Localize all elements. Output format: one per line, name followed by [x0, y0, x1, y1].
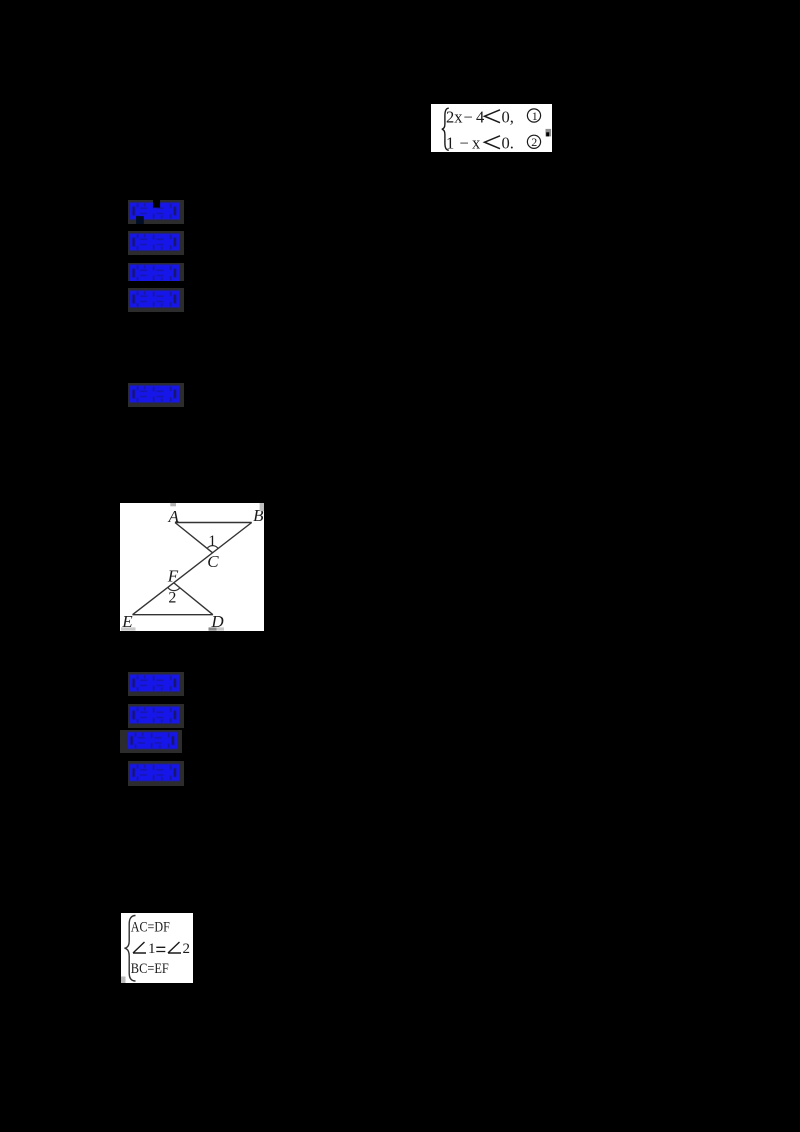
svg-text:A: A [167, 507, 179, 526]
svg-text:0.: 0. [502, 133, 514, 152]
blue label: dianping [128, 383, 184, 407]
svg-text:−: − [460, 133, 469, 152]
gray artifact bottom left under E [121, 628, 135, 631]
gray artifact top right [259, 503, 264, 511]
svg-text:2: 2 [182, 941, 190, 957]
blue label: zhuanti2 [128, 704, 184, 728]
svg-text:C: C [207, 552, 219, 571]
brace left [442, 108, 449, 150]
line 2: angle 1 = angle 2 [133, 942, 146, 953]
svg-text:1: 1 [208, 533, 216, 550]
blue label: fenxi [128, 263, 184, 281]
svg-text:x: x [472, 133, 481, 152]
gray artifact bottom left corner [121, 976, 126, 983]
gray artifact top above A [170, 503, 176, 506]
svg-text:−: − [464, 107, 473, 126]
svg-text:F: F [167, 567, 179, 586]
box: geometry figure [120, 503, 265, 631]
blue label: kaodian2 [128, 672, 184, 696]
circled 1 [527, 108, 540, 121]
box: congruence system (bottom) [121, 913, 193, 984]
blue label: kaodian [128, 200, 184, 224]
arc at F (angle 2) [168, 588, 180, 591]
line AC [175, 523, 213, 553]
line FD [174, 583, 213, 615]
svg-text:1: 1 [148, 941, 156, 957]
svg-text:BC=EF: BC=EF [130, 961, 168, 977]
brace left [124, 915, 135, 981]
blue label: zhuanti [128, 231, 184, 255]
blue label: jieda2 [128, 761, 184, 786]
svg-text:AC=DF: AC=DF [130, 919, 169, 935]
line ED [132, 614, 212, 616]
svg-text:0,: 0, [502, 107, 514, 126]
svg-text:2: 2 [168, 590, 176, 607]
svg-text:1: 1 [446, 133, 454, 152]
line AB [175, 522, 252, 524]
svg-text:2: 2 [531, 135, 537, 149]
anchor marker gray square [546, 128, 552, 136]
arc at C (angle 1) [207, 546, 218, 549]
circled 2 [527, 135, 540, 148]
svg-text:2x: 2x [446, 107, 463, 126]
box: inequality system (top) [431, 104, 552, 153]
blue label: jieda [128, 288, 184, 312]
line BE through C and F [132, 523, 251, 615]
svg-text:1: 1 [532, 108, 538, 122]
gray artifact bottom under D [208, 628, 216, 631]
blue label: fenxi2 [120, 730, 182, 753]
svg-text:4: 4 [476, 107, 484, 126]
